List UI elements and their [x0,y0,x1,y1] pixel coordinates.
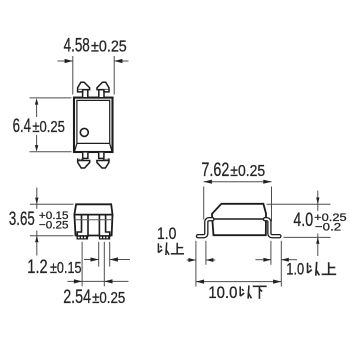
svg-text:1.0: 1.0 [286,260,304,278]
top view pin hatch marks lower-left [79,159,82,161]
dimension line 1.0 right with outside arrows [255,259,297,261]
dimension text 2.54 [63,287,125,308]
svg-text:±0.25: ±0.25 [230,163,265,180]
extension lines for 1.0 / 10.0 at bottom [196,241,281,287]
svg-text:±0.25: ±0.25 [91,38,127,55]
dimension line 2.54 with outside arrows [68,280,129,282]
dimension text 10.0 (with kanji ika) [208,284,266,302]
side view right lead [265,219,279,236]
svg-text:±0.15: ±0.15 [50,260,82,277]
front view lead 2 foot (black) [99,236,110,240]
svg-text:1.0: 1.0 [157,225,176,243]
dimension line 1.2 with outside arrows [84,259,130,261]
svg-text:2.54: 2.54 [63,287,91,308]
dimension 4.0 outside arrows [317,191,319,257]
dimension line 6.4 vertical with inside arrows [36,104,38,147]
top view pin lower-left [78,153,90,168]
extension lines below front view [82,242,110,286]
pin 1 index circle [80,128,88,136]
front view lead 2 (right) [99,216,109,236]
top view body inner face lines [75,100,112,151]
svg-text:10.0: 10.0 [208,284,237,302]
top view pin upper-right [97,82,109,97]
top view pin lower-right [97,153,109,168]
dimension text 6.4 [13,116,66,137]
dimension text 1.0 (left, two lines with kanji ijou) [157,225,184,255]
top view package body outer outline [74,98,113,152]
extension lines 4.0 [267,204,331,237]
dimension line 1.0 left with outside arrows [187,259,216,261]
dimension 3.65 outside arrows [36,188,38,256]
dimension line 10.0 inside arrows [196,281,281,283]
top view pin upper-left [78,82,90,97]
dimension text 4.58 [64,35,127,56]
dimension line 4.58 with outside arrows [58,60,129,62]
dimension text 1.2 [27,257,81,278]
front view body outline [74,204,112,235]
dimension text 7.62 [201,160,265,181]
svg-text:−0.25: −0.25 [39,220,69,232]
dimension text 1.0 (right, with kanji ijou) [286,260,336,278]
svg-text:3.65: 3.65 [9,209,35,230]
svg-text:±0.25: ±0.25 [32,119,65,136]
dimension text 3.65 with stacked tolerance [9,209,69,232]
svg-text:−0.2: −0.2 [315,222,341,234]
extension lines 7.62 [204,187,272,222]
side view left lead [198,219,212,236]
front view shoulder line [75,219,113,221]
svg-text:±0.25: ±0.25 [92,290,125,307]
dimension line 7.62 inside arrows [204,181,272,183]
front view lead 1 (left) [77,216,88,236]
svg-text:4.0: 4.0 [293,210,313,231]
svg-text:4.58: 4.58 [64,35,90,56]
side view body outline [212,204,266,235]
extension lines 3.65 [30,204,74,236]
svg-text:1.2: 1.2 [27,257,47,278]
svg-text:6.4: 6.4 [13,116,32,137]
svg-text:7.62: 7.62 [201,160,229,181]
dimension text 4.0 with stacked tolerance [293,210,346,234]
top view pin hatch marks lower-right [105,159,108,161]
front view lead 1 foot (black) [77,236,89,240]
extension lines 6.4 [30,98,72,152]
extension lines 4.58 [73,56,114,95]
